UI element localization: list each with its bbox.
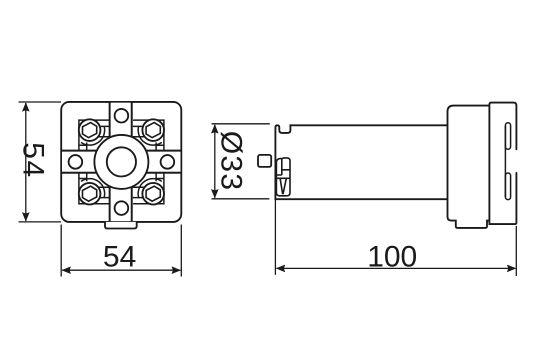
ext lines dia33: [212, 124, 270, 199]
web bottom-left: [102, 171, 108, 181]
arrow dia33 down: [211, 189, 219, 198]
small circle bottom: [115, 201, 129, 215]
dim line bottom 54: [62, 269, 180, 271]
redraw bar edge lines over fills: [61, 102, 181, 222]
arrowheads: [22, 102, 516, 274]
ext line flange left: [274, 199, 276, 275]
bridge top-left bolt: [92, 126, 110, 136]
ext lines left 54: [19, 102, 62, 222]
svg-text:100: 100: [367, 240, 417, 273]
connector housing right: [489, 103, 516, 225]
bridge bottom-left bolt: [92, 187, 110, 197]
hub outer circle: [94, 135, 148, 189]
web top-right: [135, 143, 141, 153]
web bottom-right: [135, 171, 141, 181]
clip spring spine: [504, 126, 506, 197]
plate corner bottom-left: [79, 174, 110, 204]
dim line dia33: [214, 125, 216, 198]
hub inner circle: [107, 147, 136, 176]
svg-text:54: 54: [103, 241, 136, 274]
ext lines bottom 54: [61, 225, 181, 277]
small circle top: [115, 109, 129, 123]
plate corner top-left: [79, 120, 110, 150]
hex bolt bottom-left: [82, 186, 96, 201]
web top-left: [102, 143, 108, 153]
cross vertical bar: [110, 102, 132, 222]
bolt M4 bottom-right: [142, 183, 164, 205]
bridge top-right bolt: [133, 126, 151, 136]
arrow bottom54 left: [62, 266, 71, 274]
flange outer square 54x54: [61, 102, 181, 222]
boss arc bolt top-left: [81, 127, 105, 146]
bolt bridges to vertical bar: [92, 126, 151, 197]
bridge bottom-right bolt: [133, 187, 151, 197]
plate step top-left: [79, 143, 87, 151]
end cap: [448, 106, 490, 228]
plate corner top-right: [133, 120, 164, 150]
arrow bottom54 right: [172, 266, 181, 274]
arrow 100 right: [507, 265, 516, 273]
plate step bottom-right: [156, 174, 164, 182]
svg-text:54: 54: [17, 142, 50, 178]
clip slot bottom: [505, 173, 510, 200]
clamp screw body: [276, 158, 290, 196]
hexagons: [82, 123, 160, 202]
small circle right: [161, 155, 175, 169]
boss arc bolt bottom-right: [138, 179, 162, 198]
hex bolt top-left: [82, 123, 96, 138]
svg-text:Ø33: Ø33: [215, 131, 248, 191]
body cylinder: [275, 125, 447, 199]
boss arc bolt top-right: [138, 127, 162, 146]
ext line right 100: [515, 226, 517, 276]
plate step top-right: [156, 143, 164, 151]
hex bolt bottom-right: [146, 186, 160, 201]
cross horizontal bar: [61, 151, 181, 173]
dim line 100: [277, 267, 516, 269]
bottom tab: [105, 222, 137, 229]
hex bolt top-right: [146, 123, 160, 138]
dim line left 54: [25, 103, 27, 221]
plate corner bottom-right: [133, 174, 164, 204]
arrow 100 left: [276, 265, 285, 273]
bolt plate outline: [79, 120, 164, 204]
bolt M2 top-right: [142, 119, 164, 141]
small circle left: [69, 155, 83, 169]
arrow dia33 up: [211, 124, 219, 133]
bolt M3 bottom-left: [79, 183, 101, 205]
arrow left54 up: [22, 102, 30, 111]
bolt M1 top-left: [79, 119, 101, 141]
boss arc bolt bottom-left: [81, 179, 105, 198]
arrow left54 down: [22, 212, 30, 221]
clip slot top: [505, 123, 510, 149]
bolt boss arcs: [81, 127, 162, 198]
plate step bottom-left: [79, 174, 87, 182]
clamp pin: [258, 155, 271, 167]
